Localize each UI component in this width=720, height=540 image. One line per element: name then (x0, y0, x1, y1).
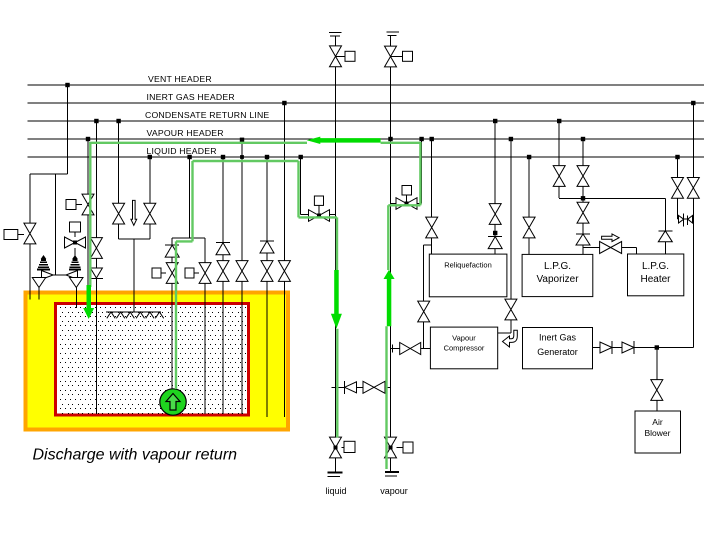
wire x=67.5 vent drop (67, 85, 69, 174)
valve on x=583 lower (577, 202, 589, 223)
green flow line along vapour header (90, 142, 307, 144)
node condensate junction x=559.2 (557, 119, 561, 123)
wire vapour manifold drop x=390.5 (390, 349, 392, 473)
wire liquid manifold drop x=335.5 (335, 215, 337, 473)
actuator box x=205.1 valve (185, 268, 194, 278)
node inert gas junction x=693.3 (691, 101, 695, 105)
node liquid header junction x=677.5 (675, 155, 679, 159)
valve on vaporizer-to-heater line (600, 242, 622, 254)
valve on reliquefaction feed (426, 217, 438, 238)
relief valve PSV1 body triangle (32, 278, 45, 288)
actuator line pump column valve (161, 272, 166, 274)
svg-text:Generator: Generator (537, 347, 578, 357)
node vapour header junction x=390.5 (388, 137, 392, 141)
vapour manifold flange bars (385, 471, 399, 473)
cargo tank inner barrier (red) (56, 304, 249, 416)
actuator box valve x=88 (66, 200, 76, 210)
wire x=677.5 drop (677, 157, 679, 219)
svg-text:L.P.G.: L.P.G. (642, 261, 669, 272)
wire x=242.9 drop (241, 139, 243, 414)
bypass valve with actuator (396, 198, 417, 210)
actuator stem PSV2 vent valve (74, 232, 76, 237)
valve on x=284.4 (278, 261, 290, 282)
green flow along liquid header (193, 160, 299, 162)
valve on x=88 with actuator (82, 194, 94, 215)
condensate return line (28, 120, 705, 122)
actuator stem liquid crossover valve (318, 205, 320, 213)
wire x=118.6 drop (118, 121, 120, 239)
green flow bypass horizontal (388, 204, 420, 206)
wire vaporizer vapour out x=583 (582, 139, 584, 254)
green flow vapour riser thin upper (387, 205, 389, 270)
node junction x=656.8 y=347.5 (655, 345, 659, 349)
relief valve PSV2 body triangle (70, 278, 84, 288)
valve on liquid crossover with actuator (309, 210, 330, 222)
node on x=495.2 (493, 231, 497, 235)
spray nozzles (107, 312, 115, 318)
green flow pump riser to liquid header (191, 161, 193, 241)
manifold valve liquid with actuator (330, 437, 342, 458)
node inert gas junction x=284.4 (282, 101, 286, 105)
unit box Inert Gas Generator (523, 328, 593, 369)
green flow liquid crossover drop (297, 161, 299, 217)
node vapour header junction x=88 (86, 137, 90, 141)
wire x=205.1 filling drop (204, 238, 206, 414)
valve on manifold crossover (363, 381, 385, 393)
wire manifold crossover y=387.3 (336, 386, 391, 388)
green flow vapour riser to manifold (385, 326, 387, 469)
valve on pump column with actuator (166, 263, 178, 284)
svg-text:Heater: Heater (640, 274, 671, 285)
svg-text:Vapour: Vapour (452, 334, 476, 343)
relief valve PSV2 spring (72, 255, 78, 259)
wire condensate check drop x=665.3 (664, 198, 666, 254)
svg-text:Blower: Blower (645, 428, 671, 438)
check valve on x=583 (576, 233, 590, 235)
valve on x=583 upper (577, 166, 589, 187)
valve on x=149.8 (144, 203, 156, 224)
svg-text:VAPOUR HEADER: VAPOUR HEADER (147, 128, 224, 138)
green flow arrow (down) into tank (83, 285, 94, 319)
unit box L.P.G. Heater (628, 254, 684, 296)
valve on compressor suction (400, 343, 421, 355)
unit box L.P.G. Vaporizer (522, 254, 593, 296)
wire PSV1 inlet (38, 288, 40, 300)
manifold crossover tick (332, 386, 340, 388)
suction tick (392, 345, 394, 353)
spectacle blind on y=219.2 (679, 216, 684, 224)
green flow liquid manifold lower (336, 329, 338, 438)
vent header line (28, 84, 705, 86)
valve on compressor discharge (505, 299, 517, 320)
wire compressor suction y=348.5 (391, 348, 431, 350)
actuator box PSV2 vent valve (70, 222, 81, 232)
green flow bypass drop (419, 142, 421, 205)
svg-text:Air: Air (652, 417, 663, 427)
valve on x=559.2 (553, 166, 565, 187)
valve on x=242.9 (236, 261, 248, 282)
wire x=559.2 drop (558, 121, 560, 198)
valve on x=223 (217, 261, 229, 282)
actuator line valve x=88 (76, 204, 82, 206)
wire x=96.4 condensate drop to tank (95, 121, 97, 414)
actuator box V2 (403, 51, 413, 61)
green flow pump riser (175, 241, 177, 389)
actuator box V1 (345, 51, 355, 61)
node liquid header junction x=300.7 (299, 155, 303, 159)
wire riser x=335.5 top (335, 36, 337, 46)
green flow liquid manifold drop thin upper (336, 217, 338, 271)
wire x=223 drop (222, 157, 224, 414)
svg-text:LIQUID HEADER: LIQUID HEADER (147, 146, 217, 156)
wire reliquefaction feed x=431.7 (431, 139, 433, 254)
wire bypass drop x=421.6 (421, 139, 423, 204)
wire x=284.4 drop (283, 103, 285, 417)
flow arrow (right) above heater valve (602, 234, 620, 242)
green flow arrow (down) on liquid manifold line (331, 270, 342, 329)
actuator line vapour manifold valve (397, 447, 404, 449)
vent valve V2 on riser x=390.5 (385, 46, 397, 67)
check valve on x=267 (260, 240, 274, 242)
wire x=149.8 drop (149, 157, 151, 239)
actuator box for valve x=29.9 (4, 230, 18, 240)
node liquid header junction x=223 (221, 155, 225, 159)
wire manifold y=238.2 (172, 237, 205, 239)
svg-text:Discharge with vapour return: Discharge with vapour return (33, 447, 238, 464)
svg-text:liquid: liquid (325, 486, 346, 496)
actuator box liquid manifold valve (344, 441, 355, 452)
cargo tank liquid dot pattern (60, 307, 246, 414)
svg-text:Reliquefaction: Reliquefaction (444, 261, 492, 270)
actuator box pump column valve (152, 268, 161, 278)
vent mast bars (liquid manifold riser) (329, 32, 342, 34)
wire air blower riser x=656.8 (656, 348, 658, 412)
wire compressor discharge riser x=510.9 (510, 139, 512, 333)
wire spray join y=239.1 (119, 238, 150, 240)
actuator line x=205.1 valve (194, 272, 199, 274)
valve on x=205.1 with actuator (199, 263, 211, 284)
cargo pump (green circle with up arrow) (160, 389, 186, 415)
wire bypass horizontal y=203.5 (391, 203, 422, 205)
wire inert gas to junction y=347.5 (657, 347, 694, 349)
node vapour header junction x=421.6 (419, 137, 423, 141)
node condensate junction x=495.2 (493, 119, 497, 123)
valve on vaporizer feed (523, 217, 535, 238)
svg-text:Inert Gas: Inert Gas (539, 333, 577, 343)
check valve on x=495.2 (488, 236, 502, 238)
actuator line liquid manifold valve (342, 447, 345, 449)
wire relief outlet header y=275 (53, 274, 66, 276)
relief valve PSV2 outlet triangle (66, 271, 78, 280)
node liquid header junction x=529.1 (527, 155, 531, 159)
vent mast bars (vapour manifold riser) (386, 31, 399, 33)
unit box Air Blower (635, 411, 681, 453)
valve on x=693.3 (687, 178, 699, 199)
wire x=29.9 down (29, 174, 31, 300)
svg-text:vapour: vapour (380, 486, 408, 496)
check valve on manifold crossover (344, 381, 346, 394)
wire x=267 drop (266, 157, 268, 417)
node condensate junction x=118.6 (116, 119, 120, 123)
green flow arrow (left) on vapour header (307, 137, 381, 144)
svg-text:INERT GAS HEADER: INERT GAS HEADER (147, 92, 235, 102)
wire PSV2 vent stem (74, 248, 76, 258)
actuator box bypass valve (402, 186, 412, 196)
wire x=55.3 relief outlet riser (54, 174, 56, 275)
wire spray drop x=133.8 (133, 239, 135, 312)
node vapour header junction x=242.9 (240, 138, 244, 142)
wire liquid crossover y=214.6 (301, 214, 336, 216)
valve on x=96.4 (90, 238, 102, 259)
valve on x=495.2 (489, 204, 501, 225)
valve on x=677.5 (672, 178, 684, 199)
svg-text:L.P.G.: L.P.G. (544, 261, 571, 272)
valve on reliquefaction bypass (418, 301, 430, 322)
inert gas header line (28, 102, 705, 104)
valve with actuator on x=29.9 (24, 223, 36, 244)
svg-text:VENT HEADER: VENT HEADER (148, 74, 212, 84)
node vapour header junction x=583 (581, 137, 585, 141)
node liquid header junction x=149.8 (148, 155, 152, 159)
relief valve PSV1 outlet triangle (42, 271, 54, 280)
wire x=88 vapour return drop (87, 139, 89, 285)
node vent header junction x=67.5 (65, 83, 69, 87)
relief valve PSV1 spring (41, 255, 47, 259)
wire PSV2 inlet (75, 288, 77, 309)
check valve on x=665.3 (658, 230, 672, 232)
node condensate junction x=96.4 (94, 119, 98, 123)
valve on x=267 (261, 261, 273, 282)
vapour header line (28, 138, 705, 140)
liquid header line (28, 156, 705, 158)
actuator stem bypass valve (406, 195, 408, 202)
node vapour header junction x=510.9 (509, 137, 513, 141)
check valve (down) on x=96.4 (90, 268, 102, 278)
node junction x=583 y=198.3 (581, 196, 585, 200)
actuator line V1 (336, 55, 346, 57)
unit box Reliquefaction (429, 254, 507, 297)
wire riser x=390.5 to suction tee (390, 67, 392, 349)
wire horizontal y=174 (30, 173, 68, 175)
node liquid header junction x=189.6 (187, 155, 191, 159)
wire elbow y=219.2 (678, 218, 694, 220)
check valve 1 on IGG outlet (611, 341, 613, 354)
wire reliquefaction bypass branch (424, 244, 432, 246)
green flow line vapour header to bypass (381, 142, 421, 144)
svg-text:CONDENSATE RETURN LINE: CONDENSATE RETURN LINE (145, 110, 269, 120)
liquid manifold flange bars (328, 472, 343, 474)
unit box Vapour Compressor (430, 327, 497, 369)
wire vaporizer feed x=529.1 (528, 157, 530, 254)
curved flow arrow at compressor discharge (503, 330, 518, 347)
wire x=189.6 drop (189, 157, 191, 238)
actuator line V2 (391, 56, 403, 58)
vent valve above PSV2 (bowtie) (65, 237, 86, 248)
wire IGG outlet y=347.5 (593, 347, 657, 349)
wire x=172.2 pump column (171, 238, 173, 390)
valve on air blower riser (651, 380, 663, 401)
green flow drop into tank x=90.3 (89, 142, 91, 287)
wire x=693.3 drop (692, 103, 694, 348)
wire condensate horizontal y=198.3 (559, 197, 665, 199)
actuator box liquid crossover valve (314, 196, 323, 205)
wire riser x=335.5 to headers (335, 67, 337, 215)
svg-text:Compressor: Compressor (444, 344, 485, 353)
check valve on x=223 (216, 242, 230, 244)
node vapour header junction x=431.7 (430, 137, 434, 141)
wire condensate return from reliquefaction x=495.2 (494, 121, 496, 254)
wire x=300.7 drop (300, 157, 302, 215)
check valve 2 on IGG outlet (633, 341, 635, 354)
valve on x=118.6 (113, 203, 125, 224)
wire compressor discharge horizontal (498, 332, 511, 334)
spray header line in tank (106, 311, 161, 313)
wire elbow into heater x=636.5 (636, 248, 638, 255)
green flow pump elbow (176, 240, 193, 242)
actuator box vapour manifold valve (403, 442, 413, 453)
flow arrow (down) between spray valves (131, 200, 137, 225)
vent valve V1 on riser x=335.5 (330, 46, 342, 67)
svg-text:Vaporizer: Vaporizer (536, 274, 579, 285)
green flow arrow (up) on vapour riser (384, 270, 395, 327)
cargo tank outer hull (orange/yellow) (26, 293, 289, 430)
manifold valve vapour with actuator (385, 437, 397, 458)
green flow liquid crossover horizontal (299, 216, 338, 218)
node liquid header junction x=267 (265, 155, 269, 159)
wire vaporizer-to-heater y=247.5 (583, 247, 637, 249)
actuator line for valve x=29.9 (18, 234, 24, 236)
check valve on pump column (165, 244, 179, 246)
wire riser x=390.5 top (390, 36, 392, 47)
